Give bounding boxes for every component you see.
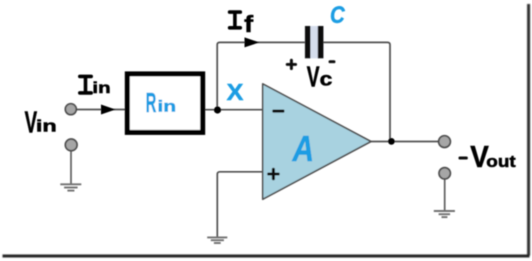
svg-text:in: in — [157, 97, 176, 115]
svg-text:A: A — [292, 129, 314, 169]
svg-text:C: C — [330, 1, 346, 28]
svg-text:in: in — [92, 78, 110, 96]
svg-text:R: R — [146, 87, 157, 118]
svg-text:f: f — [244, 11, 254, 37]
svg-text:in: in — [36, 116, 57, 135]
svg-text:V: V — [307, 62, 320, 94]
svg-text:c: c — [320, 69, 333, 90]
svg-text:out: out — [486, 152, 515, 171]
svg-text:X: X — [227, 80, 245, 106]
